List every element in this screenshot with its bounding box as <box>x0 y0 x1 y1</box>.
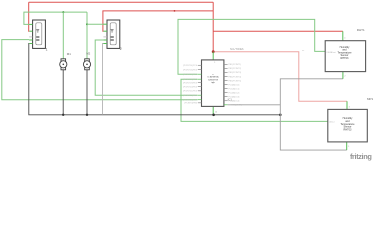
svg-text:PC0(ADC0): PC0(ADC0) <box>228 83 239 86</box>
svg-text:DATA/out: DATA/out <box>327 51 337 54</box>
svg-text:PB1(PCINT1): PB1(PCINT1) <box>228 64 241 66</box>
svg-text:PC1(ADC1): PC1(ADC1) <box>228 87 239 90</box>
component U2 sensor box 2 <box>103 20 119 48</box>
pin leg DHT bottom <box>342 72 344 79</box>
svg-text:1: 1 <box>348 146 350 148</box>
svg-text:(PCINT20)PD4: (PCINT20)PD4 <box>183 86 198 88</box>
svg-text:IC1: IC1 <box>228 97 233 101</box>
svg-text:RHT03: RHT03 <box>341 57 350 60</box>
svg-text:(PCINT16)PD0: (PCINT16)PD0 <box>183 69 198 71</box>
pin leg DHT top <box>342 31 344 40</box>
junction bendpoint red <box>174 10 176 12</box>
DHT1 humidity temperature sensor box <box>325 41 365 72</box>
junction dot bus end <box>279 114 282 117</box>
svg-text:(PCINT19)PD3: (PCINT19)PD3 <box>183 82 198 84</box>
MP inner text <box>340 117 355 132</box>
wire green motor2 drop <box>86 12 88 59</box>
junction dot red at IC top <box>212 50 215 53</box>
svg-text:A/out: A/out <box>329 120 334 123</box>
svg-text:M2: M2 <box>86 52 90 56</box>
IC U3 microcontroller box <box>202 60 224 107</box>
wire gray IC right pin <box>228 104 281 106</box>
svg-text:PB2(PCINT2): PB2(PCINT2) <box>228 68 241 70</box>
wire red R1 comp1 pin2 riser <box>28 2 31 31</box>
wire red vertical to IC top <box>212 2 214 52</box>
wire red R4 IC top to MP top <box>213 52 347 102</box>
junction dot green comp2 pin1 <box>86 23 88 25</box>
wire green comp2 pin1 <box>87 23 103 25</box>
DHT inner text <box>337 46 352 60</box>
wire black comp1 pin4 ground <box>29 44 280 115</box>
wire red R2 comp2 pin2 riser <box>103 11 213 31</box>
svg-text:SCL/TONES: SCL/TONES <box>230 48 244 51</box>
pin leg IC bottom <box>212 106 214 114</box>
motor M2 <box>83 59 90 70</box>
wire green G1 comp1 pin1 <box>24 12 87 24</box>
wire black motor2 bottom <box>86 70 88 115</box>
svg-text:PC2(ADC2): PC2(ADC2) <box>228 91 239 94</box>
svg-text:PB3(PCINT3): PB3(PCINT3) <box>228 72 241 74</box>
svg-text:3: 3 <box>349 107 351 109</box>
pin leg MP top <box>346 101 348 109</box>
wire black motor1 bottom <box>62 70 64 115</box>
svg-text:MP1: MP1 <box>367 97 374 101</box>
IC right pin stubs <box>224 64 228 104</box>
svg-text:1: 1 <box>46 47 48 51</box>
svg-text:2: 2 <box>120 47 122 51</box>
svg-text:(PCINT17)PD1: (PCINT17)PD1 <box>183 74 198 76</box>
svg-text:PC5(ADC5): PC5(ADC5) <box>231 104 242 107</box>
svg-text:RHT1: RHT1 <box>357 28 365 32</box>
motor M1 <box>60 59 67 70</box>
pin leg MP bottom <box>346 142 348 150</box>
svg-text:RHT03: RHT03 <box>344 129 353 132</box>
svg-text:PB4(PCINT4): PB4(PCINT4) <box>228 76 241 78</box>
svg-text:(PCINT14)PC6: (PCINT14)PC6 <box>183 65 198 67</box>
junction dot green motor1 <box>62 11 64 13</box>
svg-text:(PCINT23)PD7: (PCINT23)PD7 <box>183 100 198 102</box>
svg-text:PB5(PCINT5): PB5(PCINT5) <box>228 80 241 82</box>
pin number marks <box>214 38 350 148</box>
svg-text:328/DIP28: 328/DIP28 <box>208 79 219 81</box>
IC left pin labels <box>183 65 198 105</box>
junction dot motor2 gnd <box>86 114 88 116</box>
IC right pin labels <box>228 64 242 106</box>
MP1 sensor box bottom right <box>328 109 368 141</box>
wire red R1 top horizontal <box>29 1 214 3</box>
wire gray comp2 pin4 down <box>102 44 105 115</box>
wire gray DHT bottom net <box>280 79 346 150</box>
wire green motor1 drop <box>62 12 64 59</box>
svg-text:4: 4 <box>344 38 346 40</box>
svg-text:IC ATMEGA: IC ATMEGA <box>207 76 219 79</box>
IC left pin stubs <box>198 65 202 103</box>
svg-text:M1: M1 <box>67 52 71 56</box>
junction dot motor1 gnd <box>62 114 64 116</box>
svg-text:xx: xx <box>302 50 305 52</box>
wire green G2 comp1 pin3 long <box>2 40 198 100</box>
svg-text:(PCINT0)PB0: (PCINT0)PB0 <box>184 103 198 105</box>
wire green G5 IC pin to MP left <box>181 79 328 121</box>
IC inner label <box>207 74 219 84</box>
wire red R3 to DHT top <box>213 30 343 32</box>
svg-text:(PCINT21)PD5: (PCINT21)PD5 <box>183 91 198 93</box>
svg-text:14: 14 <box>215 111 218 113</box>
svg-text:(PCINT18)PD2: (PCINT18)PD2 <box>183 79 198 81</box>
svg-text:2: 2 <box>344 76 346 78</box>
junction dot IC bottom gnd <box>212 114 215 117</box>
pin leg IC top <box>212 52 214 60</box>
wire green C IC pin to DHT left <box>178 19 325 74</box>
svg-text:(PCINT22)PD6: (PCINT22)PD6 <box>183 95 198 97</box>
component U1 sensor box 1 <box>29 20 45 48</box>
svg-text:fritzing: fritzing <box>350 152 372 161</box>
wire green G3 comp2 pin3 to IC <box>95 40 197 95</box>
